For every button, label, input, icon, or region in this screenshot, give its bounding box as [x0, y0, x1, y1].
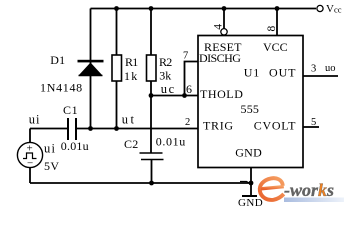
- svg-text:3: 3: [311, 64, 316, 75]
- svg-text:uo: uo: [325, 63, 336, 74]
- svg-text:C1: C1: [63, 103, 78, 117]
- svg-text:ui: ui: [29, 113, 41, 127]
- svg-text:555: 555: [241, 102, 260, 116]
- svg-text:0.01u: 0.01u: [61, 139, 89, 153]
- svg-text:1k: 1k: [124, 69, 138, 83]
- svg-text:THOLD: THOLD: [200, 87, 243, 101]
- svg-text:ui: ui: [44, 142, 56, 156]
- svg-text:R1: R1: [125, 55, 138, 69]
- svg-text:−: −: [27, 158, 33, 170]
- svg-text:TRIG: TRIG: [203, 119, 234, 133]
- svg-text:uc: uc: [161, 82, 176, 96]
- svg-text:3k: 3k: [159, 69, 171, 83]
- svg-text:DISCHG: DISCHG: [199, 51, 241, 65]
- svg-text:D1: D1: [50, 53, 65, 67]
- svg-text:5: 5: [311, 117, 316, 128]
- svg-text:C2: C2: [124, 137, 139, 151]
- svg-text:GND: GND: [238, 197, 263, 209]
- svg-text:GND: GND: [235, 146, 262, 160]
- svg-text:OUT: OUT: [269, 66, 296, 80]
- svg-text:1N4148: 1N4148: [40, 80, 83, 94]
- svg-text:5V: 5V: [44, 159, 59, 173]
- svg-text:8: 8: [266, 26, 278, 32]
- svg-text:ut: ut: [122, 113, 137, 127]
- svg-text:U1: U1: [244, 66, 260, 80]
- svg-text:0.01u: 0.01u: [156, 135, 186, 149]
- svg-text:4: 4: [213, 24, 225, 30]
- svg-text:Vcc: Vcc: [326, 3, 342, 15]
- svg-text:6: 6: [186, 82, 192, 96]
- svg-text:-works: -works: [284, 180, 334, 200]
- svg-text:7: 7: [183, 51, 188, 62]
- svg-text:2: 2: [185, 117, 190, 128]
- svg-text:R2: R2: [159, 55, 172, 69]
- svg-text:CVOLT: CVOLT: [254, 119, 296, 133]
- svg-text:VCC: VCC: [263, 40, 288, 54]
